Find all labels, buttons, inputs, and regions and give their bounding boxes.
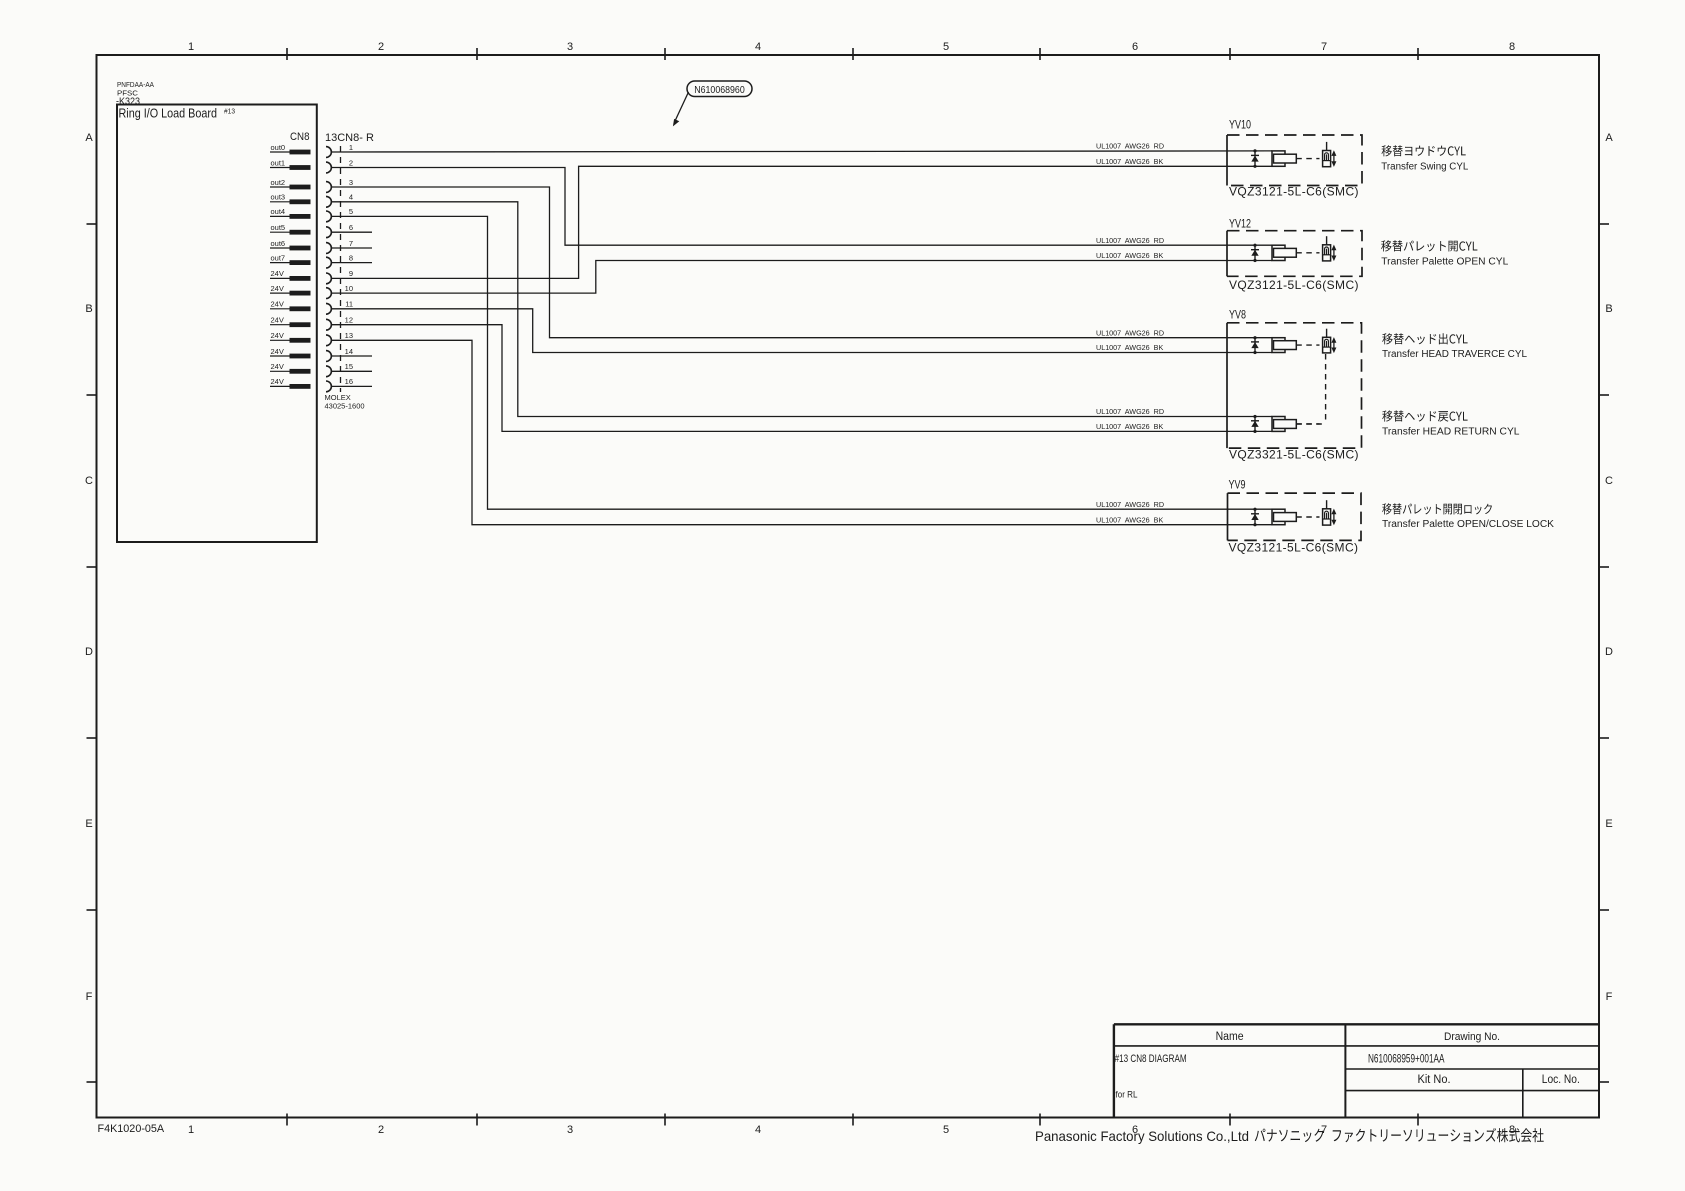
svg-text:out0: out0 [271,143,286,152]
svg-text:VQZ3121-5L-C6(SMC): VQZ3121-5L-C6(SMC) [1229,540,1359,554]
svg-text:3: 3 [349,178,353,187]
valve outline box YV8 [1227,323,1362,448]
svg-text:F4K1020-05A: F4K1020-05A [98,1123,165,1135]
title block table [1114,1024,1599,1117]
CN8 pin 7 (out6) [270,239,353,254]
flyback diode YV10 [1251,149,1259,168]
solenoid coil connector YV8 coil A [1272,338,1320,353]
svg-text:UL1007 AWG26 BK: UL1007 AWG26 BK [1096,251,1163,260]
frame row ticks left/right [87,223,97,225]
wire pin3 to YV8 coil-A RD [331,187,1272,338]
svg-text:N610068959+001AA: N610068959+001AA [1368,1052,1445,1066]
svg-text:Kit No.: Kit No. [1418,1074,1451,1086]
flyback diode YV9 [1251,508,1259,527]
svg-text:24V: 24V [271,362,284,371]
svg-text:4: 4 [755,1124,761,1136]
svg-text:A: A [1605,132,1613,144]
svg-text:#13: #13 [224,107,235,116]
svg-text:16: 16 [345,377,353,386]
svg-text:5: 5 [943,41,949,53]
wire pin9 to YV10 BK [331,166,1272,278]
company name japanese [1255,1128,1544,1142]
svg-text:5: 5 [349,207,353,216]
solenoid coil connector YV9 [1272,509,1320,525]
CN8 pin 9 (24V) [270,269,353,284]
svg-text:#13 CN8 DIAGRAM: #13 CN8 DIAGRAM [1115,1053,1187,1065]
drawing frame border [97,55,1600,1118]
svg-text:UL1007 AWG26 BK: UL1007 AWG26 BK [1096,515,1163,524]
actuation double arrow YV8 coil A [1331,337,1336,353]
svg-text:4: 4 [755,41,761,53]
svg-text:Transfer HEAD TRAVERCE CYL: Transfer HEAD TRAVERCE CYL [1382,349,1527,360]
svg-text:B: B [1605,303,1612,315]
svg-text:24V: 24V [271,331,284,340]
svg-text:5: 5 [943,1124,949,1136]
svg-text:24V: 24V [271,377,284,386]
YV9 japanese description [1382,503,1492,514]
svg-text:UL1007 AWG26 BK: UL1007 AWG26 BK [1096,157,1163,166]
YV8 coil B japanese description [1382,410,1467,421]
svg-text:VQZ3321-5L-C6(SMC): VQZ3321-5L-C6(SMC) [1229,447,1359,461]
valve outline box YV9 [1228,493,1362,540]
svg-text:YV9: YV9 [1229,478,1246,492]
svg-text:15: 15 [345,362,353,371]
solenoid coil connector YV8 coil B [1272,417,1320,432]
svg-text:out6: out6 [271,239,286,248]
connector dashed alignment line [340,146,342,392]
svg-text:out4: out4 [271,207,286,216]
svg-text:11: 11 [345,300,353,309]
CN8 pin 14 (24V) [270,347,353,362]
wire pin7 stub [331,247,372,249]
board reference labels PNFDAA-AA / PFSC / -K323 [116,80,154,108]
svg-text:VQZ3121-5L-C6(SMC): VQZ3121-5L-C6(SMC) [1229,184,1359,198]
svg-text:E: E [85,818,92,830]
svg-text:F: F [86,991,93,1003]
svg-text:F: F [1606,991,1613,1003]
svg-text:out2: out2 [271,178,286,187]
CN8 pin 11 (24V) [270,300,353,315]
actuation double arrow YV9 [1331,509,1336,526]
UL1007 wire gauge labels [1096,142,1164,525]
svg-text:Panasonic Factory Solutions Co: Panasonic Factory Solutions Co.,Ltd [1035,1128,1249,1144]
wire pin5 to YV9 RD [331,216,1272,509]
CN8 pin 5 (out4) [270,207,353,222]
svg-text:4: 4 [349,193,353,202]
svg-text:YV12: YV12 [1229,217,1251,231]
svg-text:12: 12 [345,316,353,325]
wire pin1 to YV10 RD [331,151,1272,152]
svg-text:D: D [1605,646,1613,658]
svg-text:out1: out1 [271,158,286,167]
svg-text:UL1007 AWG26 RD: UL1007 AWG26 RD [1096,328,1164,337]
YV12 japanese description [1381,240,1477,251]
svg-text:out5: out5 [271,223,286,232]
pilot valve symbol YV8 coil A [1323,329,1331,353]
svg-text:43025-1600: 43025-1600 [325,402,365,411]
svg-text:out7: out7 [271,253,286,262]
svg-text:24V: 24V [271,284,284,293]
svg-text:6: 6 [1132,41,1138,53]
svg-text:Transfer Swing CYL: Transfer Swing CYL [1381,161,1468,172]
svg-text:2: 2 [378,1124,384,1136]
YV8 shared pilot dashed link [1325,354,1327,424]
svg-text:7: 7 [1321,41,1327,53]
frame column ticks top/bottom [286,48,288,60]
solenoid coil connector YV12 [1272,245,1320,260]
MOLEX connector part number [325,393,365,411]
svg-text:out3: out3 [271,193,286,202]
svg-text:24V: 24V [271,300,284,309]
drawing number balloon N610068960 [673,81,752,126]
wire pin16 stub [331,385,372,387]
actuation double arrow YV12 [1331,245,1336,262]
svg-text:Transfer HEAD RETURN CYL: Transfer HEAD RETURN CYL [1382,427,1520,438]
svg-text:A: A [85,132,93,144]
wire pin4 to YV8 coil-B RD [331,202,1272,417]
CN8 pin 8 (out7) [270,253,353,268]
svg-text:9: 9 [349,269,353,278]
wire pin2 to YV12 RD [331,168,1272,246]
svg-text:VQZ3121-5L-C6(SMC): VQZ3121-5L-C6(SMC) [1229,278,1359,292]
wire pin13 to YV9 BK [331,340,1272,524]
YV10 japanese description [1382,145,1466,156]
svg-text:UL1007 AWG26 RD: UL1007 AWG26 RD [1096,407,1164,416]
pilot valve symbol YV9 [1323,500,1331,525]
CN8 pin 15 (24V) [270,362,353,377]
flyback diode YV8 coil A [1251,336,1259,354]
svg-text:10: 10 [345,284,353,293]
CN8 pin 1 (out0) [270,143,353,158]
actuation double arrow YV10 [1331,150,1336,167]
svg-text:2: 2 [378,41,384,53]
svg-text:1: 1 [188,41,194,53]
svg-text:8: 8 [1509,41,1515,53]
svg-text:Name: Name [1216,1031,1244,1043]
CN8 pin 16 (24V) [270,377,353,392]
solenoid coil connector YV10 [1272,151,1320,166]
svg-text:C: C [1605,475,1613,487]
svg-text:Drawing No.: Drawing No. [1444,1031,1500,1043]
svg-text:YV10: YV10 [1229,118,1251,132]
svg-text:Ring I/O Load Board: Ring I/O Load Board [119,107,218,121]
svg-text:13: 13 [345,331,353,340]
flyback diode YV12 [1251,244,1259,263]
svg-text:YV8: YV8 [1229,308,1246,322]
svg-text:24V: 24V [271,269,284,278]
svg-text:UL1007 AWG26 RD: UL1007 AWG26 RD [1096,500,1164,509]
wire pin15 stub [331,370,372,372]
CN8 pin 10 (24V) [270,284,353,299]
svg-text:UL1007 AWG26 RD: UL1007 AWG26 RD [1096,236,1164,245]
column numbers top [188,41,1515,53]
valve outline box YV10 [1227,135,1362,186]
svg-text:Loc. No.: Loc. No. [1542,1074,1580,1086]
svg-text:UL1007 AWG26 BK: UL1007 AWG26 BK [1096,422,1163,431]
svg-text:N610068960: N610068960 [694,85,745,96]
pilot valve symbol YV10 [1323,142,1331,167]
svg-text:14: 14 [345,347,353,356]
svg-text:8: 8 [1509,1124,1515,1136]
flyback diode YV8 coil B [1251,415,1259,433]
svg-text:UL1007 AWG26 BK: UL1007 AWG26 BK [1096,343,1163,352]
svg-text:24V: 24V [271,347,284,356]
row letters left/right [85,132,1613,1003]
CN8 pin 2 (out1) [270,158,353,173]
wire pin11 to YV8 coil-A BK [331,309,1272,353]
valve outline box YV12 [1227,231,1362,277]
svg-text:8: 8 [349,253,353,262]
title block texts [1115,1031,1580,1101]
svg-text:1: 1 [349,143,353,152]
YV8 coil A japanese description [1382,333,1467,344]
wire pin14 stub [331,355,372,357]
CN8 pin 12 (24V) [270,316,353,331]
svg-text:3: 3 [567,1124,573,1136]
svg-text:E: E [1605,818,1612,830]
CN8 pin 6 (out5) [270,223,353,238]
svg-text:for RL: for RL [1116,1090,1138,1101]
svg-text:1: 1 [188,1124,194,1136]
Ring I/O Load Board box [117,105,317,543]
wire pin6 stub [331,231,372,233]
svg-text:D: D [85,646,93,658]
svg-text:B: B [85,303,92,315]
CN8 pin 3 (out2) [270,178,353,193]
CN8 pin 13 (24V) [270,331,353,346]
svg-text:Transfer Palette OPEN/CLOSE LO: Transfer Palette OPEN/CLOSE LOCK [1382,519,1554,530]
svg-text:CN8: CN8 [290,131,310,143]
wire pin10 to YV12 BK [331,261,1272,294]
wire pin8 stub [331,262,372,264]
svg-text:C: C [85,475,93,487]
svg-text:7: 7 [349,239,353,248]
svg-text:3: 3 [567,41,573,53]
svg-text:6: 6 [349,223,353,232]
pilot valve symbol YV12 [1323,236,1331,261]
svg-text:UL1007 AWG26 RD: UL1007 AWG26 RD [1096,142,1164,151]
svg-text:2: 2 [349,158,353,167]
CN8 pin 4 (out3) [270,193,353,208]
svg-text:Transfer Palette OPEN CYL: Transfer Palette OPEN CYL [1381,257,1508,268]
column numbers bottom [188,1124,1515,1136]
svg-text:24V: 24V [271,316,284,325]
wire pin12 to YV8 coil-B BK [331,325,1272,432]
